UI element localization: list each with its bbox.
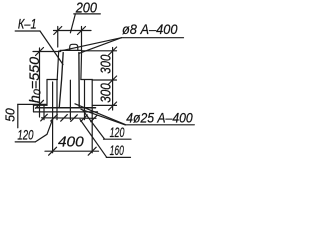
label K-1 leader bbox=[40, 31, 63, 65]
dim 200: ext right bbox=[81, 27, 83, 51]
dim h0: ext top bbox=[33, 51, 61, 53]
column K-1 top edge bbox=[60, 49, 82, 51]
label K-1 shelf bbox=[15, 30, 40, 32]
step top right bbox=[81, 79, 92, 81]
base left edge bbox=[33, 105, 35, 112]
column right edge bbox=[80, 50, 83, 79]
svg-text:120: 120 bbox=[17, 127, 33, 143]
base bottom edge bbox=[34, 111, 98, 113]
label d8 leader to left bar bbox=[61, 38, 122, 51]
right chain: tick top bbox=[109, 47, 117, 55]
right chain: tick bottom bbox=[109, 102, 117, 110]
bar dash 3 bbox=[69, 80, 71, 119]
dim 200: line bbox=[54, 30, 92, 32]
bar dash 4 bbox=[84, 80, 86, 119]
svg-text:50: 50 bbox=[3, 108, 17, 122]
svg-text:300: 300 bbox=[97, 54, 114, 74]
right chain: dim line bbox=[112, 48, 114, 111]
label 160 leader bbox=[80, 119, 107, 157]
spacing tick 3 bbox=[61, 115, 68, 122]
base top left bbox=[34, 104, 48, 106]
label 4d25 leader a bbox=[75, 104, 125, 125]
right chain: ext from column top bbox=[82, 50, 117, 52]
label 4d25 leader b bbox=[81, 109, 125, 125]
svg-text:4ø25 А–400: 4ø25 А–400 bbox=[126, 110, 193, 126]
dim 400: tick right bbox=[88, 147, 96, 155]
dim 400: line bbox=[45, 150, 99, 152]
right chain: tick mid bbox=[109, 76, 117, 84]
bottom rebar 4d25 bbox=[36, 107, 96, 109]
dim 50: bracket vertical bbox=[17, 104, 19, 127]
svg-text:300: 300 bbox=[97, 83, 114, 103]
dim 400: tick left bbox=[49, 147, 57, 155]
dim 400: ext left bbox=[52, 82, 54, 153]
svg-text:ø8 А–400: ø8 А–400 bbox=[122, 22, 178, 37]
lifting loop bbox=[70, 44, 78, 50]
svg-text:h0=550: h0=550 bbox=[27, 57, 43, 103]
label d8 shelf bbox=[122, 37, 184, 39]
spacing tick 4 bbox=[71, 115, 78, 122]
right chain: ext from step top bbox=[92, 79, 116, 81]
rebar bar left vertical bbox=[59, 53, 63, 108]
rebar bar right vertical bbox=[78, 53, 80, 108]
dim 200: ext left bbox=[57, 27, 59, 48]
column left edge bbox=[57, 51, 59, 80]
dim 200: tick left bbox=[54, 27, 62, 35]
dim h0: line bbox=[39, 48, 41, 117]
spacing tick 5 bbox=[81, 115, 88, 122]
bar dash 2 bbox=[56, 80, 58, 119]
bar spacing line bbox=[42, 117, 97, 120]
label d8 leader to right bar bbox=[79, 38, 122, 54]
dim h0: tick bottom bbox=[36, 100, 44, 108]
label 160 shelf bbox=[106, 156, 130, 158]
label 120 left leader bbox=[35, 118, 53, 142]
svg-text:400: 400 bbox=[58, 134, 84, 151]
label 120 right shelf bbox=[104, 138, 132, 140]
svg-text:160: 160 bbox=[110, 143, 125, 159]
svg-text:120: 120 bbox=[110, 125, 125, 141]
svg-text:К–1: К–1 bbox=[18, 16, 37, 32]
label 4d25 shelf bbox=[125, 124, 194, 126]
dim h0: tick top bbox=[36, 48, 44, 56]
dim 200: leader bbox=[70, 14, 75, 33]
dim 400: ext right bbox=[91, 106, 93, 153]
step right edge bbox=[91, 80, 93, 106]
spacing tick 6 bbox=[91, 115, 98, 122]
bar dash 1 bbox=[43, 105, 45, 120]
spacing tick 1 bbox=[41, 114, 48, 121]
base top right with extension to chain bbox=[92, 104, 116, 106]
label 120 left shelf bbox=[15, 141, 35, 143]
step left edge bbox=[46, 80, 48, 106]
spacing tick 2 bbox=[51, 115, 58, 122]
step top left bbox=[47, 79, 57, 81]
svg-text:200: 200 bbox=[75, 0, 97, 16]
dim h0 / 50: shared ext line bbox=[18, 103, 46, 105]
dim 200: tick right bbox=[78, 27, 86, 35]
dim 200: shelf bbox=[74, 13, 101, 15]
label 120 right leader bbox=[83, 111, 105, 140]
